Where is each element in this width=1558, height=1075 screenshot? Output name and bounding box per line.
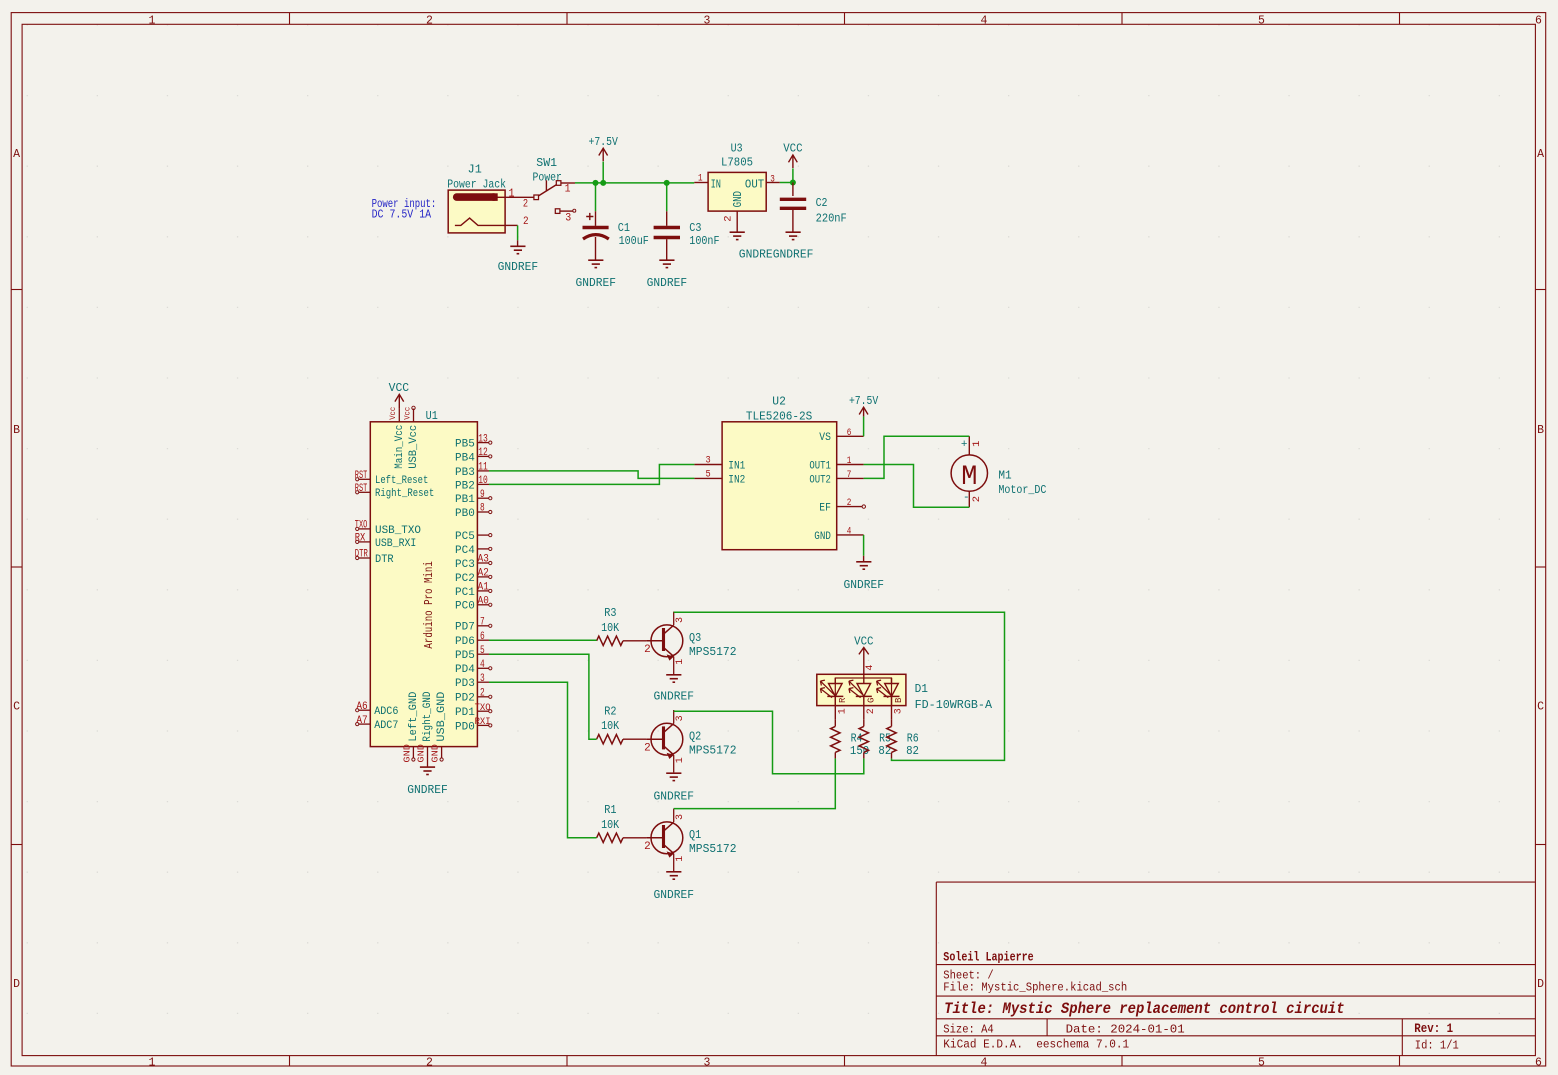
svg-text:M: M: [961, 462, 977, 493]
svg-text:Power Jack: Power Jack: [447, 177, 506, 191]
svg-text:82: 82: [906, 744, 919, 758]
svg-text:3: 3: [565, 213, 571, 225]
svg-text:1: 1: [509, 186, 515, 200]
svg-text:PB5: PB5: [455, 439, 475, 451]
svg-text:2: 2: [426, 1056, 433, 1069]
svg-text:1: 1: [847, 455, 852, 467]
svg-text:6: 6: [1535, 14, 1542, 27]
svg-text:Q3: Q3: [689, 631, 701, 645]
svg-text:OUT: OUT: [745, 178, 764, 191]
svg-text:A3: A3: [478, 554, 489, 566]
svg-text:3: 3: [480, 673, 485, 685]
svg-text:1: 1: [838, 708, 849, 714]
svg-text:Title: Mystic Sphere replaceme: Title: Mystic Sphere replacement control…: [944, 1000, 1345, 1018]
svg-text:3: 3: [704, 14, 711, 27]
svg-text:OUT1: OUT1: [809, 460, 831, 472]
svg-text:GNDREF: GNDREF: [654, 888, 695, 902]
svg-text:7: 7: [480, 617, 485, 629]
svg-text:13: 13: [478, 433, 488, 445]
svg-text:1: 1: [565, 184, 571, 196]
svg-text:4: 4: [981, 14, 988, 27]
svg-text:4: 4: [480, 659, 485, 671]
svg-text:3: 3: [675, 814, 686, 820]
svg-text:2: 2: [847, 497, 852, 509]
svg-text:C3: C3: [689, 221, 701, 235]
svg-text:12: 12: [478, 447, 488, 459]
svg-text:4: 4: [847, 526, 852, 538]
svg-text:C1: C1: [618, 221, 630, 235]
svg-text:PD2: PD2: [455, 693, 475, 705]
svg-text:-: -: [963, 492, 970, 504]
svg-text:R1: R1: [604, 803, 616, 817]
svg-text:USB_Vcc: USB_Vcc: [408, 425, 420, 469]
svg-text:GNDREF: GNDREF: [844, 578, 885, 592]
svg-text:2: 2: [723, 215, 735, 221]
svg-text:10K: 10K: [601, 621, 620, 635]
svg-text:GND: GND: [732, 191, 745, 207]
svg-text:Power: Power: [533, 171, 562, 185]
svg-text:USB_RXI: USB_RXI: [375, 538, 416, 550]
svg-text:MPS5172: MPS5172: [689, 645, 737, 659]
svg-text:PD5: PD5: [455, 650, 475, 662]
svg-text:L7805: L7805: [721, 156, 753, 170]
svg-text:PC1: PC1: [455, 587, 475, 599]
svg-text:TXO: TXO: [355, 520, 368, 532]
svg-text:D: D: [13, 978, 20, 991]
svg-text:5: 5: [1258, 1056, 1265, 1069]
svg-text:2: 2: [866, 708, 877, 714]
svg-text:2: 2: [971, 496, 983, 502]
svg-text:A: A: [1537, 148, 1544, 161]
svg-text:Rev: 1: Rev: 1: [1414, 1022, 1453, 1036]
svg-text:GNDREF: GNDREF: [576, 276, 617, 290]
svg-text:PC4: PC4: [455, 545, 475, 557]
svg-text:PC3: PC3: [455, 559, 475, 571]
svg-text:2: 2: [523, 199, 528, 211]
svg-text:Arduino Pro Mini: Arduino Pro Mini: [422, 561, 436, 648]
svg-text:+7.5V: +7.5V: [849, 394, 879, 408]
svg-text:R3: R3: [604, 606, 616, 620]
svg-text:G: G: [866, 698, 876, 703]
svg-text:C: C: [13, 701, 20, 714]
svg-text:VCC: VCC: [783, 142, 802, 156]
svg-text:4: 4: [865, 665, 876, 671]
svg-text:1: 1: [149, 1056, 156, 1069]
svg-text:PD3: PD3: [455, 678, 475, 690]
svg-text:B: B: [894, 697, 904, 703]
svg-text:U2: U2: [772, 395, 786, 409]
svg-text:1: 1: [698, 173, 703, 185]
svg-text:+7.5V: +7.5V: [589, 135, 619, 149]
svg-text:RX: RX: [355, 533, 366, 545]
svg-text:1: 1: [675, 757, 686, 763]
svg-text:4: 4: [981, 1056, 988, 1069]
svg-text:File: Mystic_Sphere.kicad_sch: File: Mystic_Sphere.kicad_sch: [943, 980, 1127, 994]
svg-text:2: 2: [644, 644, 651, 656]
svg-text:PC5: PC5: [455, 531, 475, 543]
svg-text:Q1: Q1: [689, 828, 701, 842]
svg-text:1: 1: [675, 856, 686, 862]
svg-text:D1: D1: [915, 682, 928, 696]
svg-text:DTR: DTR: [355, 549, 368, 561]
svg-text:MPS5172: MPS5172: [689, 842, 737, 856]
svg-text:GNDREF: GNDREF: [654, 690, 695, 704]
svg-text:PD0: PD0: [455, 721, 475, 733]
svg-text:GNDREF: GNDREF: [647, 276, 688, 290]
svg-text:82: 82: [878, 744, 891, 758]
svg-text:3: 3: [894, 708, 905, 714]
svg-text:2: 2: [644, 841, 651, 853]
svg-text:10: 10: [478, 475, 488, 487]
svg-text:USB_TXO: USB_TXO: [375, 525, 421, 537]
svg-text:PB3: PB3: [455, 467, 475, 479]
svg-text:Left_Reset: Left_Reset: [375, 475, 428, 487]
svg-text:PD1: PD1: [455, 707, 475, 719]
svg-text:IN: IN: [711, 178, 721, 191]
svg-text:3: 3: [704, 1056, 711, 1069]
svg-text:PC0: PC0: [455, 601, 475, 613]
svg-text:GNDREF: GNDREF: [654, 790, 695, 804]
svg-text:A7: A7: [356, 715, 367, 727]
svg-text:1: 1: [675, 659, 686, 665]
svg-text:PB4: PB4: [455, 452, 475, 464]
svg-text:M1: M1: [998, 468, 1011, 482]
svg-text:B: B: [13, 424, 20, 437]
svg-text:10K: 10K: [601, 818, 620, 832]
svg-text:5: 5: [1258, 14, 1265, 27]
svg-text:100uF: 100uF: [619, 234, 649, 248]
svg-text:R2: R2: [604, 704, 616, 718]
svg-text:Date: 2024-01-01: Date: 2024-01-01: [1066, 1022, 1185, 1036]
svg-text:2: 2: [644, 742, 651, 754]
svg-text:C: C: [1537, 701, 1544, 714]
svg-text:Id: 1/1: Id: 1/1: [1415, 1038, 1459, 1052]
svg-text:TXO: TXO: [475, 702, 491, 714]
svg-text:6: 6: [847, 427, 852, 439]
svg-text:220nF: 220nF: [816, 212, 847, 226]
svg-text:RST: RST: [355, 483, 368, 495]
svg-text:RXI: RXI: [475, 716, 491, 728]
svg-text:DTR: DTR: [375, 554, 394, 566]
svg-text:5: 5: [706, 469, 711, 481]
svg-text:OUT2: OUT2: [809, 474, 831, 486]
svg-text:3: 3: [770, 173, 775, 185]
svg-text:PD7: PD7: [455, 622, 475, 634]
svg-text:A0: A0: [478, 596, 489, 608]
svg-text:GNDREF: GNDREF: [407, 783, 448, 797]
svg-text:7: 7: [847, 469, 852, 481]
svg-text:6: 6: [1535, 1056, 1542, 1069]
svg-text:VCC: VCC: [389, 381, 410, 395]
svg-text:SW1: SW1: [536, 156, 557, 170]
svg-text:PD4: PD4: [455, 664, 475, 676]
svg-text:PB0: PB0: [455, 508, 475, 520]
svg-text:J1: J1: [468, 163, 482, 177]
svg-text:C2: C2: [816, 196, 828, 210]
svg-text:2: 2: [480, 688, 485, 700]
svg-text:2: 2: [523, 216, 529, 228]
svg-text:Left_GND: Left_GND: [408, 691, 420, 741]
svg-text:3: 3: [675, 617, 686, 623]
svg-text:8: 8: [480, 503, 485, 515]
svg-text:2: 2: [426, 14, 433, 27]
svg-text:11: 11: [478, 462, 488, 474]
svg-text:6: 6: [480, 631, 485, 643]
svg-text:ADC6: ADC6: [374, 706, 398, 718]
svg-text:FD-10WRGB-A: FD-10WRGB-A: [915, 698, 993, 712]
svg-text:GND: GND: [416, 744, 427, 763]
svg-text:KiCad E.D.A. eeschema 7.0.1: KiCad E.D.A. eeschema 7.0.1: [943, 1038, 1129, 1052]
svg-text:A2: A2: [478, 568, 489, 580]
svg-text:VS: VS: [819, 432, 831, 444]
svg-text:U1: U1: [426, 409, 438, 423]
svg-text:RST: RST: [355, 470, 368, 482]
svg-text:ADC7: ADC7: [374, 720, 398, 732]
svg-text:IN1: IN1: [728, 460, 745, 472]
svg-text:GNDREGNDREF: GNDREGNDREF: [739, 247, 814, 261]
svg-text:GND: GND: [814, 531, 831, 543]
svg-text:Vcc: Vcc: [388, 407, 398, 420]
svg-text:VCC: VCC: [854, 635, 873, 649]
svg-text:3: 3: [706, 455, 711, 467]
svg-text:USB_GND: USB_GND: [436, 691, 448, 741]
svg-text:U3: U3: [731, 142, 743, 156]
svg-text:+: +: [961, 439, 968, 451]
svg-text:IN2: IN2: [728, 474, 745, 486]
svg-text:GND: GND: [430, 744, 441, 763]
svg-text:EF: EF: [819, 503, 831, 515]
svg-text:A6: A6: [356, 701, 367, 713]
svg-text:DC 7.5V 1A: DC 7.5V 1A: [372, 208, 432, 222]
svg-text:1: 1: [971, 441, 983, 447]
svg-text:MPS5172: MPS5172: [689, 744, 737, 758]
svg-text:Right_GND: Right_GND: [422, 691, 434, 741]
svg-text:Vcc: Vcc: [402, 407, 412, 420]
svg-text:A: A: [13, 148, 20, 161]
svg-text:10K: 10K: [601, 719, 620, 733]
svg-text:5: 5: [480, 645, 485, 657]
svg-text:Q2: Q2: [689, 730, 701, 744]
svg-text:GNDREF: GNDREF: [498, 260, 539, 274]
svg-text:Motor_DC: Motor_DC: [998, 483, 1046, 497]
svg-text:PD6: PD6: [455, 636, 475, 648]
svg-text:D: D: [1537, 978, 1544, 991]
svg-text:Soleil Lapierre: Soleil Lapierre: [943, 950, 1033, 964]
svg-text:Right_Reset: Right_Reset: [375, 488, 434, 500]
svg-text:3: 3: [675, 715, 686, 721]
svg-text:Size: A4: Size: A4: [943, 1022, 993, 1036]
svg-text:Main_Vcc: Main_Vcc: [394, 425, 406, 469]
svg-text:A1: A1: [478, 582, 490, 594]
svg-text:PB2: PB2: [455, 480, 475, 492]
svg-text:R: R: [838, 697, 848, 703]
svg-text:B: B: [1537, 424, 1544, 437]
svg-text:100nF: 100nF: [689, 234, 719, 248]
svg-text:9: 9: [480, 489, 485, 501]
svg-text:1: 1: [149, 14, 156, 27]
svg-text:PB1: PB1: [455, 494, 475, 506]
svg-text:GND: GND: [402, 744, 413, 763]
svg-text:PC2: PC2: [455, 573, 475, 585]
svg-text:TLE5206-2S: TLE5206-2S: [746, 409, 812, 423]
